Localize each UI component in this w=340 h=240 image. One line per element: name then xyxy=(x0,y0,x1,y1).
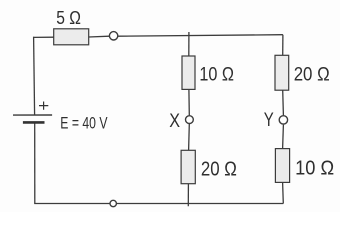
battery plus sign xyxy=(39,102,48,110)
resistor 5 ohm (top left, horizontal) xyxy=(54,29,89,45)
wire bottom xyxy=(34,203,283,205)
wire top: corner to R1 xyxy=(33,36,54,38)
battery E: positive long plate xyxy=(13,114,52,116)
terminal circle top xyxy=(109,32,117,40)
svg-text:5 Ω: 5 Ω xyxy=(56,8,81,28)
resistor 10 ohm (middle top, vertical) xyxy=(182,56,195,89)
resistor 20 ohm (right top, vertical) xyxy=(275,55,289,90)
svg-text:20 Ω: 20 Ω xyxy=(201,158,237,180)
wire right branch: top corner to R4 xyxy=(282,35,284,56)
wire right branch: R5 to bottom wire xyxy=(282,182,285,203)
resistor 10 ohm (right bottom, vertical) xyxy=(275,149,289,183)
wire right branch: R4 to node Y xyxy=(282,90,285,115)
svg-text:Y: Y xyxy=(264,110,274,131)
wire left vertical lower segment xyxy=(34,123,36,203)
node Y circle xyxy=(279,116,287,124)
terminal circle bottom xyxy=(110,200,116,206)
wire middle branch: R3 to below bottom wire xyxy=(187,184,189,207)
wire middle branch stub above top wire xyxy=(188,32,190,35)
wire top: R1 to terminal circle xyxy=(89,35,110,38)
wire left vertical upper segment xyxy=(34,37,35,115)
svg-text:10 Ω: 10 Ω xyxy=(295,156,334,179)
wire right branch: node Y to R5 xyxy=(282,125,285,149)
wire top: terminal circle to right corner xyxy=(118,35,283,37)
svg-text:10 Ω: 10 Ω xyxy=(199,63,234,85)
resistor 20 ohm (middle bottom, vertical) xyxy=(181,150,195,183)
wire middle branch: node X to R3 xyxy=(188,124,191,150)
wire middle branch: R2 to node X xyxy=(188,89,190,115)
svg-text:20 Ω: 20 Ω xyxy=(294,63,330,85)
node X circle xyxy=(186,116,194,124)
battery E: negative short thick plate xyxy=(23,121,45,124)
svg-text:X: X xyxy=(169,111,180,132)
wire middle branch: top wire to R2 xyxy=(188,35,190,56)
svg-text:E = 40 V: E = 40 V xyxy=(60,114,107,132)
